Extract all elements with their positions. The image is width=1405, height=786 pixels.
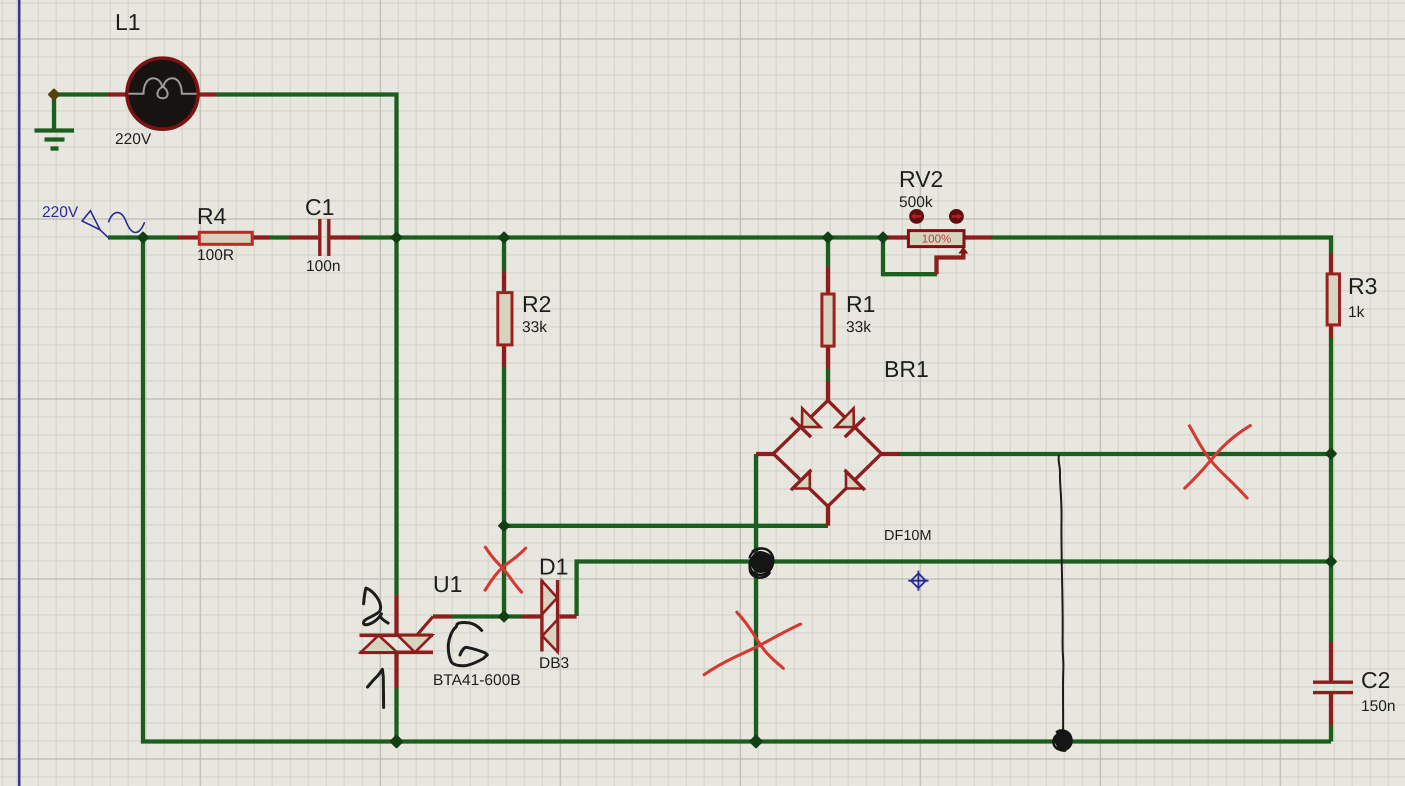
svg-text:33k: 33k	[846, 319, 871, 336]
svg-text:100R: 100R	[197, 247, 234, 264]
svg-text:220V: 220V	[115, 131, 152, 148]
svg-text:DF10M: DF10M	[884, 528, 932, 544]
svg-text:R2: R2	[522, 291, 551, 317]
svg-text:100n: 100n	[306, 258, 340, 275]
svg-text:R3: R3	[1348, 273, 1377, 299]
svg-text:R4: R4	[197, 203, 227, 229]
svg-text:DB3: DB3	[539, 655, 569, 672]
svg-text:L1: L1	[115, 9, 141, 35]
svg-text:33k: 33k	[522, 319, 547, 336]
svg-text:100%: 100%	[922, 234, 951, 246]
svg-text:BTA41-600B: BTA41-600B	[433, 672, 521, 689]
svg-text:220V: 220V	[42, 204, 79, 221]
svg-text:C2: C2	[1361, 667, 1390, 693]
svg-text:BR1: BR1	[884, 356, 929, 382]
svg-text:C1: C1	[305, 194, 334, 220]
svg-text:U1: U1	[433, 571, 462, 597]
svg-text:R1: R1	[846, 291, 875, 317]
svg-text:150n: 150n	[1361, 698, 1395, 715]
svg-text:RV2: RV2	[899, 166, 943, 192]
svg-text:500k: 500k	[899, 194, 933, 211]
svg-text:D1: D1	[539, 554, 568, 580]
svg-text:1k: 1k	[1348, 304, 1365, 321]
